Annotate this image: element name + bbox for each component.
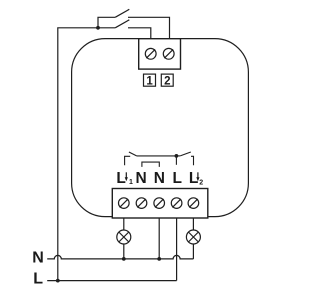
junction dot lamp E1 / N [122, 257, 126, 261]
svg-text:L: L [116, 170, 125, 187]
svg-text:1: 1 [129, 179, 133, 186]
wire: lamp E2 to N line [192, 244, 194, 259]
bottom terminal screw L2 [188, 198, 199, 209]
N link bracket [142, 162, 159, 167]
svg-text:N: N [154, 170, 165, 187]
lamp E1 [117, 230, 131, 244]
wire: L feed up left side to switch junction [58, 28, 98, 281]
wire: terminal L2 to lamp E2 [192, 218, 194, 230]
wire: terminal L1 to lamp E1 [123, 218, 125, 230]
lamp E2 [186, 230, 200, 244]
N line with hops [47, 255, 193, 259]
bottom terminal screw L1 [119, 198, 130, 209]
junction dot common [175, 154, 179, 158]
label box 2 [161, 74, 173, 86]
junction dot N terminal / N [157, 257, 161, 261]
bottom terminal screw N1 [136, 198, 147, 209]
terminal tick L2 [191, 156, 194, 165]
L line [47, 280, 176, 282]
wire: lamp E1 to N line [123, 244, 125, 259]
wire: relay common line [137, 155, 177, 157]
wire: common to blade K2 [176, 155, 180, 157]
junction dot A [96, 26, 100, 30]
bottom terminal block [112, 189, 208, 219]
bottom terminal screw L [171, 198, 182, 209]
svg-text:N: N [32, 249, 44, 266]
wire: terminal N to N line [158, 218, 160, 259]
relay blade K2 [180, 152, 191, 156]
wire: junction to switch S2 [98, 27, 115, 29]
wire: riser to upper switch line [98, 17, 115, 28]
label box 1 [144, 74, 156, 86]
top terminal block [139, 39, 181, 69]
wire: terminal L down to L line [176, 218, 178, 281]
bottom terminal screw N2 [154, 198, 165, 209]
wire: switch S2 to terminal 1 [128, 28, 151, 39]
switch S2 blade [115, 20, 129, 28]
wire: switch S1 to terminal 2 [128, 17, 170, 38]
svg-text:N: N [136, 170, 147, 187]
terminal screw 2 [163, 48, 174, 59]
device outline [72, 39, 249, 217]
relay blade K1 [129, 152, 137, 156]
svg-text:L: L [33, 271, 43, 288]
label L1 [116, 170, 133, 187]
terminal screw 1 [145, 48, 156, 59]
terminal tick L1 [125, 156, 131, 165]
wire: common stub to L terminal [175, 156, 177, 165]
svg-text:1: 1 [146, 75, 153, 87]
switch S1 blade [115, 9, 129, 17]
svg-text:2: 2 [164, 75, 170, 87]
label L2 [189, 170, 203, 187]
svg-text:L: L [173, 170, 182, 187]
junction dot L wire [56, 279, 60, 283]
svg-text:2: 2 [199, 180, 203, 187]
